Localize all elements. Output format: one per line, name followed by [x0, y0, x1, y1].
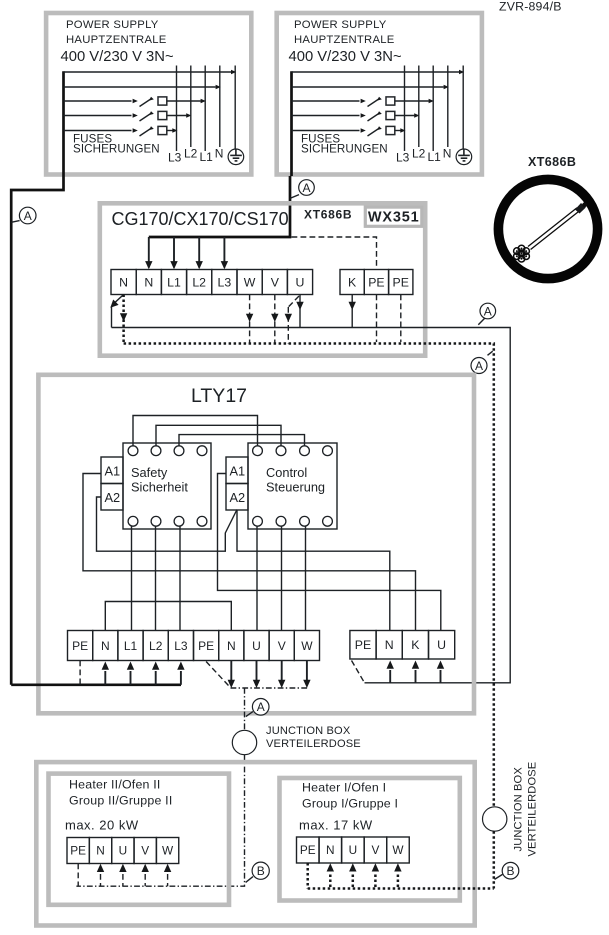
svg-text:HAUPTZENTRALE: HAUPTZENTRALE [66, 34, 167, 46]
arrow up into aux terminal at 440.5 [440, 670, 442, 683]
svg-text:L3: L3 [218, 275, 232, 289]
junction box A circle [232, 730, 256, 754]
fuse switch row L2 B [292, 115, 360, 117]
wire safety pin5 to L1 [131, 526, 133, 631]
svg-text:L3: L3 [174, 639, 188, 653]
wire safety pin1 to control pin1 [133, 416, 258, 447]
wire N branch B [292, 86, 444, 88]
relay box WX351 [365, 207, 422, 226]
svg-text:V: V [141, 844, 149, 858]
dotted wire junction B down [493, 831, 496, 888]
wire fuse to phase L3 A [167, 130, 172, 132]
svg-text:L2: L2 [412, 147, 426, 161]
dotted arrow into heater I terminal at 352.8 [352, 875, 355, 889]
heater box I [280, 778, 460, 901]
wire control pin7 to W [305, 526, 307, 631]
dotted arrow into heater I terminal at 397.9 [397, 875, 400, 889]
power supply box B [277, 13, 482, 175]
wire fuse to phase L2 B [395, 115, 414, 117]
svg-text:L1: L1 [167, 275, 181, 289]
fuse FB2 [386, 111, 395, 119]
svg-text:PE: PE [300, 843, 316, 857]
svg-text:SICHERUNGEN: SICHERUNGEN [301, 143, 388, 156]
svg-text:PE: PE [355, 638, 371, 652]
wire supply A to left margin [11, 176, 63, 685]
wire fuse to phase L3 B [395, 130, 400, 132]
fuse FA1 [158, 97, 167, 105]
dash-dot wire junction to heater II [76, 755, 244, 886]
arrow into terminal N2 [148, 237, 150, 268]
dashed wire PE2 down [400, 295, 402, 343]
arrow up into terminal at 130.5 [130, 671, 132, 685]
wire safety pin2 to control pin2 [156, 425, 281, 446]
svg-text:W: W [301, 639, 313, 653]
wire L2 vertical B [418, 66, 420, 148]
svg-text:W: W [392, 843, 404, 857]
svg-text:B: B [257, 864, 265, 878]
svg-text:JUNCTION BOX: JUNCTION BOX [513, 767, 525, 852]
svg-text:Control: Control [266, 465, 307, 480]
relay U1 Safety [123, 443, 211, 529]
wire L1 vertical A [204, 66, 206, 152]
fuse switch row L2 A [64, 115, 132, 117]
wire safety pin3 to control pin3 [179, 435, 305, 446]
wire L3 vertical A [176, 66, 178, 152]
wire N bus strip [105, 602, 231, 631]
svg-text:XT686B: XT686B [304, 208, 352, 222]
svg-text:A: A [302, 181, 310, 195]
svg-text:max. 17 kW: max. 17 kW [299, 818, 373, 833]
fuse FA2 [158, 111, 167, 119]
svg-text:B: B [506, 864, 514, 878]
power supply box A [46, 13, 251, 175]
svg-text:L2: L2 [184, 147, 198, 161]
terminal strip CG170 aux K PE PE [340, 270, 364, 295]
wire N1 to supply line [114, 295, 124, 304]
svg-text:L1: L1 [200, 150, 214, 164]
svg-text:Sicherheit: Sicherheit [131, 480, 188, 495]
svg-text:K: K [411, 638, 420, 652]
node B left [246, 877, 253, 883]
fuse switch row L1 B [292, 100, 360, 102]
node A bottom [246, 712, 253, 717]
dashed wire W down [249, 295, 251, 344]
svg-text:W: W [162, 844, 174, 858]
arrow up into aux terminal at 415.5 [415, 670, 417, 683]
svg-text:400 V/230 V 3N~: 400 V/230 V 3N~ [289, 49, 402, 65]
wire control pin5 to U [256, 526, 258, 631]
svg-text:U: U [296, 275, 305, 289]
svg-text:L3: L3 [396, 151, 410, 165]
svg-text:VERTEILERDOSE: VERTEILERDOSE [527, 762, 539, 857]
wire L1 vertical B [432, 66, 434, 152]
svg-text:V: V [271, 275, 280, 289]
svg-text:ZVR-894/B: ZVR-894/B [499, 0, 562, 14]
wire fuse to phase L2 A [167, 115, 186, 117]
wire control A1 to U aux [218, 474, 441, 631]
arrow into terminal L2 [198, 237, 200, 268]
svg-text:VERTEILERDOSE: VERTEILERDOSE [266, 738, 361, 750]
terminal strip LTY17 main [68, 631, 93, 661]
junction boxes outer enclosure [36, 762, 474, 925]
terminal A1 safety [101, 457, 123, 484]
wire control A2 to N aux [237, 510, 390, 631]
svg-text:400 V/230 V 3N~: 400 V/230 V 3N~ [61, 49, 174, 65]
dash-dot wire to junction box A [244, 688, 246, 730]
svg-text:LTY17: LTY17 [191, 385, 247, 407]
node A right solid [478, 318, 484, 325]
svg-text:JUNCTION BOX: JUNCTION BOX [266, 725, 351, 737]
svg-text:Group I/Gruppe I: Group I/Gruppe I [302, 797, 398, 811]
wire bus A solid to LTY17 [112, 328, 511, 683]
svg-text:PE: PE [72, 639, 88, 653]
junction box B circle [483, 807, 507, 831]
svg-text:Heater II/Ofen II: Heater II/Ofen II [69, 778, 161, 792]
svg-text:Heater I/Ofen I: Heater I/Ofen I [302, 781, 386, 795]
svg-text:A: A [257, 700, 265, 714]
svg-text:N: N [96, 844, 105, 858]
arrow into terminal L1 [173, 237, 175, 268]
arrow up into aux terminal at 390.2 [389, 670, 391, 683]
svg-text:A: A [475, 359, 483, 373]
terminal strip heater I [297, 837, 320, 863]
wire fuse to phase L1 A [167, 100, 201, 102]
arrow up into terminal at 180.9 [180, 671, 182, 685]
wire N branch A [64, 86, 216, 88]
arrow down from terminal at 231.3 [230, 661, 232, 682]
dotted wire N1 down [122, 295, 125, 344]
svg-text:N: N [326, 843, 335, 857]
fuse FB3 [386, 126, 395, 134]
svg-text:Safety: Safety [131, 465, 168, 480]
dashed wire heater II PE [77, 864, 79, 887]
svg-text:V: V [371, 843, 379, 857]
svg-text:PE: PE [70, 844, 86, 858]
svg-text:HAUPTZENTRALE: HAUPTZENTRALE [294, 34, 395, 46]
arrow down from terminal at 306.9 [306, 661, 308, 682]
svg-text:N: N [443, 146, 452, 160]
wire safety A1 to K [83, 474, 416, 631]
svg-text:L2: L2 [192, 275, 206, 289]
svg-text:V: V [278, 639, 286, 653]
relay unit box LTY17 [38, 375, 474, 714]
svg-text:K: K [348, 275, 357, 289]
arrow down from terminal at 281.7 [281, 661, 283, 682]
svg-text:PE: PE [393, 275, 409, 289]
svg-text:A2: A2 [105, 490, 121, 505]
terminal A2 safety [101, 484, 123, 511]
dotted arrow into heater I terminal at 375.4 [374, 875, 377, 889]
supply feed wire into LTY17 [11, 683, 181, 686]
dashed wire PE1 down [376, 295, 378, 343]
svg-text:L1: L1 [428, 150, 442, 164]
svg-text:U: U [119, 844, 128, 858]
wire L3 vertical B [404, 66, 406, 152]
arrow up into terminal at 105.3 [104, 671, 106, 685]
terminal strip LTY17 aux [350, 631, 376, 660]
svg-text:POWER SUPPLY: POWER SUPPLY [294, 19, 387, 31]
svg-text:W: W [244, 275, 256, 289]
dashed arrow into heater II terminal at 167.6 [167, 874, 169, 886]
terminal A2 control [226, 484, 248, 511]
wire fuse to phase L1 B [395, 100, 429, 102]
svg-text:PE: PE [198, 639, 214, 653]
wire safety pin7 to L3 [179, 526, 181, 631]
node B right [495, 874, 503, 879]
dotted arrow into heater I terminal at 330.3 [329, 875, 332, 889]
svg-text:N: N [215, 146, 224, 160]
svg-text:N: N [101, 639, 110, 653]
dashed wire to PE terminal [292, 237, 377, 270]
svg-text:A1: A1 [105, 464, 121, 479]
ground symbol A [228, 149, 244, 165]
svg-text:N: N [119, 275, 128, 289]
svg-text:PE: PE [368, 275, 384, 289]
svg-text:U: U [252, 639, 261, 653]
svg-text:N: N [227, 639, 236, 653]
svg-text:U: U [349, 843, 358, 857]
svg-text:SICHERUNGEN: SICHERUNGEN [73, 143, 160, 156]
svg-text:XT686B: XT686B [528, 155, 576, 169]
relay U2 Control [248, 443, 337, 529]
terminal strip CG170 main [111, 270, 136, 295]
svg-text:A: A [484, 304, 492, 318]
fuse switch row L1 A [64, 100, 132, 102]
node A right dotted [488, 351, 493, 355]
svg-text:N: N [385, 638, 394, 652]
dashed wire V down [274, 295, 276, 344]
svg-text:WX351: WX351 [368, 210, 420, 226]
terminal strip heater II [67, 838, 89, 864]
fuse FA3 [158, 126, 167, 134]
svg-text:L1: L1 [124, 639, 138, 653]
ground symbol B [456, 149, 472, 165]
wire safety pin6 to L2 [155, 526, 157, 631]
svg-text:A2: A2 [230, 490, 246, 505]
dashed wire PE1 LTY17 [79, 661, 81, 685]
controller box CG170/CX170/CS170 [100, 203, 425, 355]
wire PE vertical A [234, 66, 236, 150]
svg-text:POWER SUPPLY: POWER SUPPLY [66, 19, 159, 31]
wire safety A2 to control A2 [97, 497, 238, 551]
dashed wire U branch [288, 296, 299, 307]
wire PE vertical B [462, 66, 464, 150]
heater box II [49, 774, 230, 905]
dashed arrow into heater II terminal at 145.2 [144, 874, 146, 886]
svg-text:A: A [24, 209, 32, 223]
fuse switch row L3 A [64, 130, 132, 132]
arrow up into terminal at 155.7 [155, 671, 157, 685]
wire supply B to CG170 [149, 176, 290, 237]
svg-text:Steuerung: Steuerung [266, 480, 325, 495]
dashed wire PE2 to bus [206, 662, 230, 688]
wire N vertical A [219, 66, 221, 148]
fuse switch row L3 B [292, 130, 360, 132]
node A left [11, 221, 19, 223]
svg-text:A1: A1 [230, 464, 246, 479]
supply feed wire A [62, 71, 65, 176]
svg-text:CG170/CX170/CS170: CG170/CX170/CS170 [112, 209, 289, 229]
dotted bus A to junction box right [124, 344, 494, 807]
wire L2 vertical A [190, 66, 192, 148]
svg-text:N: N [144, 275, 153, 289]
svg-text:L3: L3 [168, 151, 182, 165]
svg-text:L2: L2 [149, 639, 163, 653]
wire K down [351, 295, 353, 328]
svg-text:Group II/Gruppe II: Group II/Gruppe II [69, 794, 172, 808]
dashed wire PE aux [352, 661, 365, 683]
svg-text:U: U [437, 638, 446, 652]
arrow into terminal L3 [223, 237, 225, 268]
dash-dot bus under strip [231, 687, 308, 689]
arrow down from terminal at 256.5 [256, 661, 258, 682]
dashed arrow into heater II terminal at 100.5 [100, 874, 102, 886]
wire U down [299, 295, 301, 328]
wire PE branch A [64, 71, 232, 73]
wire control pin6 to V [281, 526, 283, 631]
terminal A1 control [226, 457, 248, 484]
dotted wire heater I PE [306, 863, 309, 889]
node A below supply B [290, 195, 299, 199]
wire PE branch B [292, 71, 460, 73]
dashed arrow into heater II terminal at 122.9 [122, 874, 124, 886]
svg-text:max. 20 kW: max. 20 kW [65, 818, 139, 833]
dotted bus heater I [308, 887, 494, 890]
wire N vertical B [447, 66, 449, 148]
fuse FB1 [386, 97, 395, 105]
supply feed wire B [290, 71, 293, 176]
